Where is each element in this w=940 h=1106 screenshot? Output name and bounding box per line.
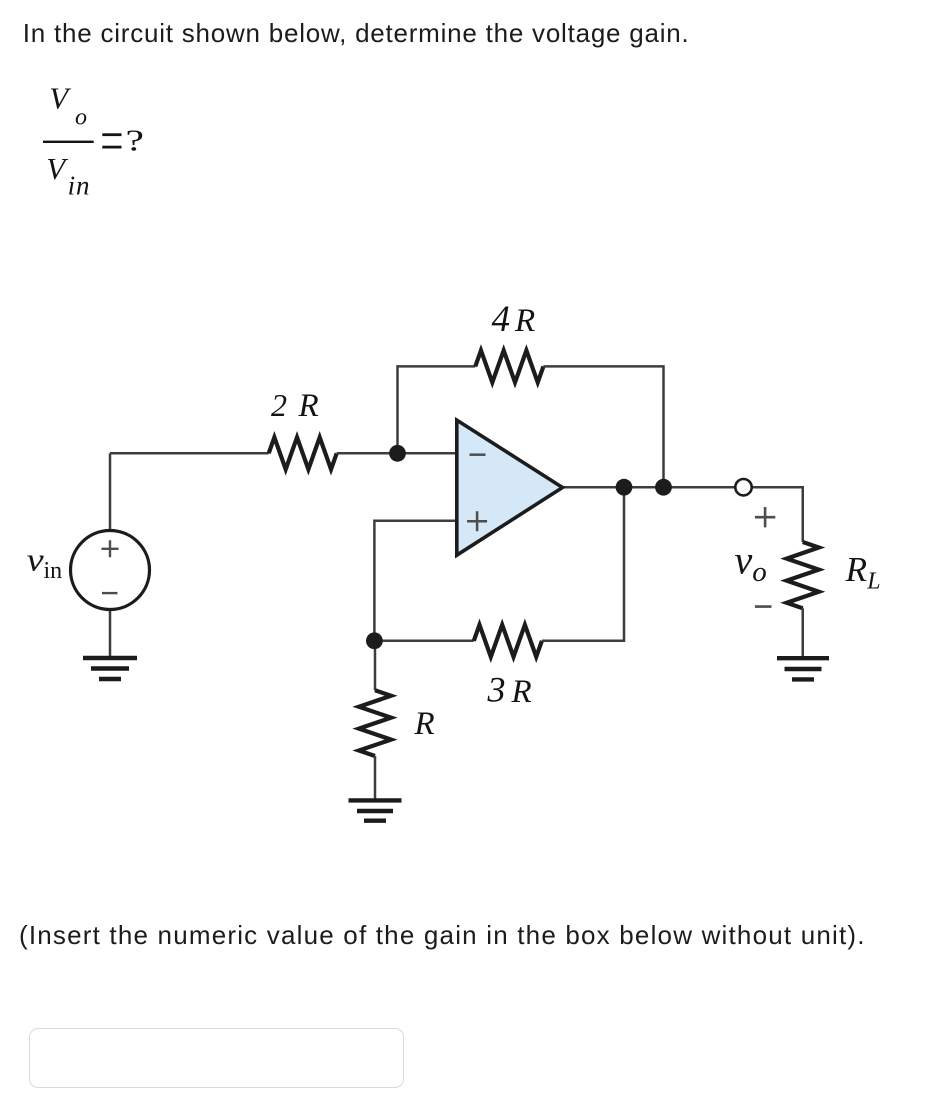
wire 3R to output vertical	[542, 487, 624, 641]
resistor 2R	[269, 437, 337, 469]
svg-text:3: 3	[487, 669, 506, 709]
circuit schematic	[0, 280, 940, 880]
answer input box	[29, 1028, 404, 1088]
svg-text:v: v	[735, 537, 753, 582]
title text	[23, 18, 690, 48]
node dot output 1	[616, 479, 633, 496]
bottom instruction text	[19, 920, 866, 950]
node dot at inverting input	[389, 445, 406, 462]
op-amp plus input sign	[467, 511, 487, 531]
svg-text:4: 4	[492, 299, 511, 340]
ground under R	[349, 800, 402, 820]
vin plus sign	[102, 540, 119, 557]
svg-text:L: L	[866, 568, 880, 594]
svg-text:V: V	[49, 80, 71, 115]
minus sign below vo	[755, 605, 772, 608]
resistor R vertical	[359, 690, 391, 756]
wire R to ground	[374, 756, 377, 799]
svg-text:?: ?	[126, 122, 144, 157]
wire feedback right	[543, 366, 663, 487]
wire input horizontal to 2R	[110, 452, 269, 455]
op-amp minus input sign	[470, 453, 486, 456]
svg-text:o: o	[75, 105, 87, 131]
ground under vin	[83, 658, 137, 679]
wire vin bottom to ground	[109, 610, 112, 656]
wire RL to ground	[802, 608, 805, 656]
wire open circle to RL corner	[752, 487, 803, 542]
formula Vo/Vin = ?	[0, 0, 220, 230]
op-amp U1 triangle	[457, 420, 563, 555]
vin minus sign	[102, 592, 118, 594]
svg-text:R: R	[514, 303, 535, 339]
wire lower node to 3R	[374, 640, 473, 643]
wire plus input	[374, 521, 456, 641]
svg-text:in: in	[44, 558, 63, 584]
svg-text:in: in	[68, 171, 91, 201]
svg-text:R: R	[414, 706, 435, 742]
svg-text:v: v	[27, 541, 44, 578]
equals sign	[102, 133, 121, 136]
wire vin top vertical	[109, 453, 112, 531]
resistor 4R	[475, 350, 543, 382]
wire feedback left vertical	[398, 366, 476, 453]
svg-text:R: R	[298, 388, 319, 424]
open terminal circle	[735, 479, 751, 495]
plus sign above vo	[755, 507, 775, 527]
svg-text:V: V	[46, 151, 68, 186]
node dot at non-inverting lower node	[366, 632, 383, 649]
svg-text:R: R	[511, 674, 532, 710]
svg-text:o: o	[752, 556, 767, 588]
wire output horizontal	[564, 486, 735, 489]
wire lower node to R	[374, 641, 377, 691]
svg-text:R: R	[845, 550, 867, 589]
fraction bar	[43, 141, 94, 143]
resistor RL vertical	[787, 542, 819, 608]
voltage source vin circle	[71, 531, 150, 610]
wire 2R to op-amp minus input	[337, 452, 457, 455]
svg-text:2: 2	[271, 387, 287, 423]
node dot output 2	[655, 479, 672, 496]
ground under RL	[777, 658, 829, 679]
resistor 3R	[474, 625, 542, 657]
